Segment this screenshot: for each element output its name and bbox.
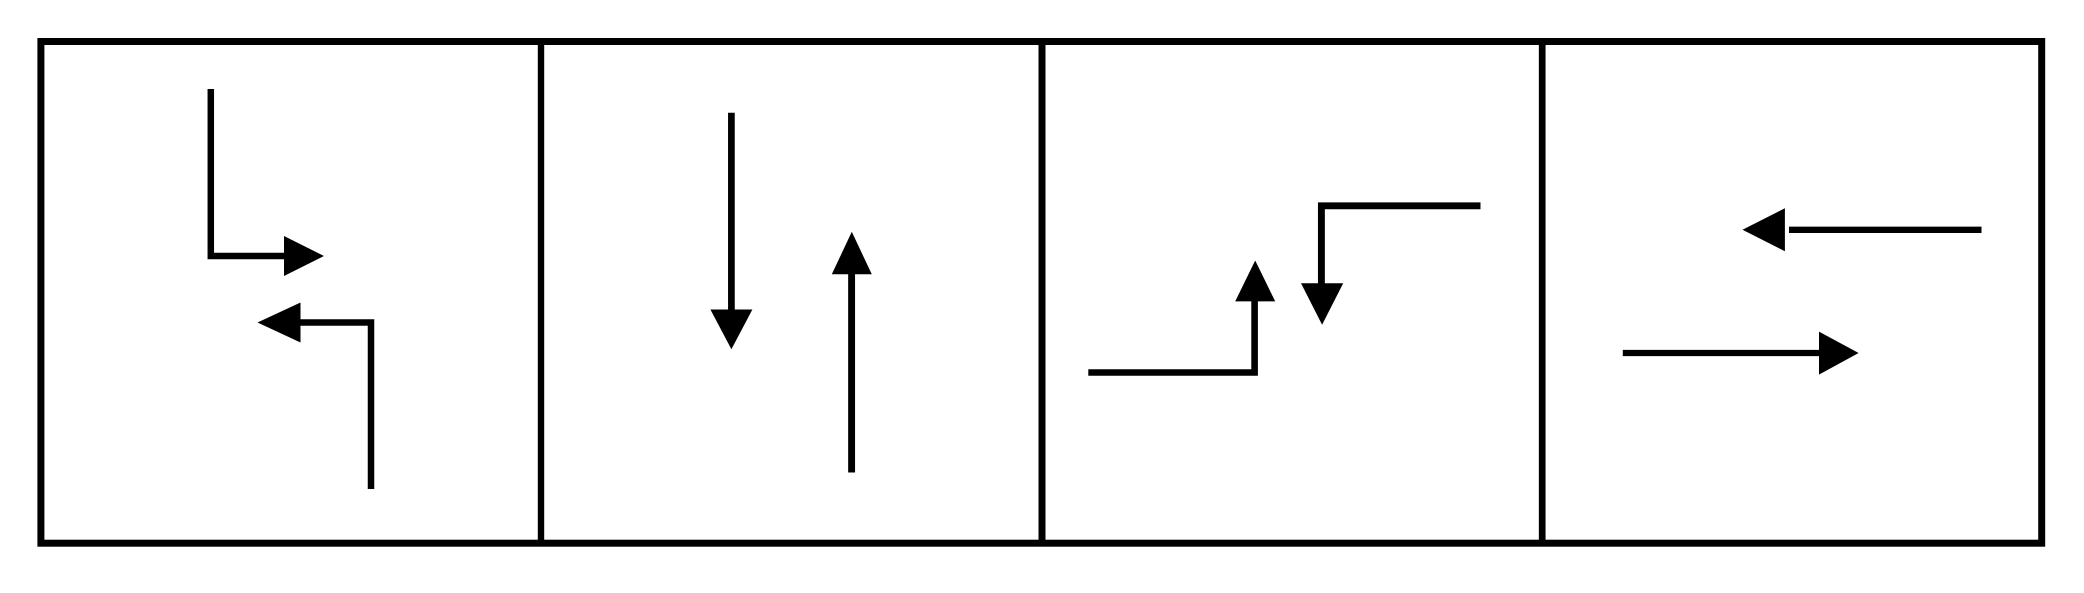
panel 2: downward arrow (shaft) xyxy=(728,113,735,314)
panel 2: downward arrow (down-pointing head) xyxy=(710,310,752,350)
panel 3: elbow arrow right-then-up (shaft) xyxy=(1088,298,1254,373)
panel 4: leftward arrow (left-pointing head) xyxy=(1743,208,1785,251)
panel 3: elbow arrow left-then-down (shaft) xyxy=(1321,206,1480,287)
panel divider 2 xyxy=(1039,42,1046,544)
panel 1: elbow arrow up-then-left (left-pointing head) xyxy=(258,303,301,343)
panel 1: elbow arrow down-then-right (shaft) xyxy=(211,89,288,256)
panel 4: rightward arrow (right-pointing head) xyxy=(1819,332,1859,375)
panel 4: rightward arrow (shaft) xyxy=(1623,350,1823,356)
panel 1: elbow arrow down-then-right (right-pointing head) xyxy=(284,236,324,276)
panel 2: upward arrow (up-pointing head) xyxy=(832,232,872,274)
panel 4: leftward arrow (shaft) xyxy=(1789,227,1982,233)
panel divider 1 xyxy=(538,42,544,544)
panel 2: upward arrow (shaft) xyxy=(848,270,855,473)
panel 3: elbow arrow right-then-up (up-pointing head) xyxy=(1235,261,1275,302)
panel 3: elbow arrow left-then-down (down-pointing head) xyxy=(1301,283,1343,325)
panel divider 3 xyxy=(1539,42,1546,544)
panel 1: elbow arrow up-then-left (shaft) xyxy=(297,323,371,490)
